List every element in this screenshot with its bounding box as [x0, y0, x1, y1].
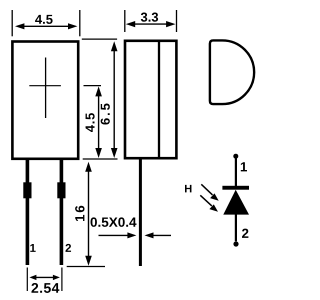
4.5 width value label — [35, 15, 53, 24]
lead width arrow pointing right — [99, 232, 137, 238]
4.5 height dimension arrow — [95, 86, 102, 158]
photodiode pin 2 terminal dot — [233, 241, 238, 246]
3.3 depth dimension arrow — [126, 21, 176, 27]
3.3 depth extension line right — [176, 10, 178, 32]
photodiode pin 1 label — [241, 162, 247, 171]
16 bottom extension line — [67, 266, 105, 268]
photodiode pin 2 label — [242, 229, 248, 238]
16 lead length dimension arrow — [85, 162, 92, 266]
lead 1 kink block — [23, 182, 31, 198]
2.54 extension line right — [61, 268, 63, 292]
photodiode anode triangle — [223, 190, 249, 215]
front view package outline — [12, 42, 78, 159]
photodiode pin 1 terminal dot — [233, 154, 238, 159]
4.5 width extension line right — [79, 10, 81, 36]
top view D-shape outline — [210, 40, 254, 104]
bottom extension line of package — [83, 158, 118, 160]
lead 2 kink block — [57, 182, 65, 198]
6.5 height dimension arrow — [111, 41, 118, 158]
lens center cross horizontal — [29, 85, 61, 87]
4.5 height value label — [86, 113, 95, 132]
pin label 1 — [30, 244, 35, 252]
lead 2 wire — [60, 159, 64, 266]
2.54 value label — [31, 283, 59, 293]
photodiode cathode bar — [222, 186, 249, 190]
photodiode pin 1 wire — [235, 156, 237, 186]
side view lead wire — [139, 159, 142, 267]
lens center cross vertical — [45, 58, 47, 119]
2.54 extension line left — [26, 268, 28, 292]
lead width arrow pointing left — [145, 232, 172, 238]
incident light arrow 2 — [200, 195, 218, 211]
incident light arrow 1 — [201, 184, 218, 200]
4.5 width dimension arrow — [15, 23, 77, 29]
4.5 height extension line at lens center — [84, 85, 102, 87]
3.3 depth value label — [141, 13, 158, 22]
0.5X0.4 lead section label — [91, 217, 137, 227]
pin label 2 — [66, 244, 72, 252]
16 value label — [75, 206, 84, 221]
4.5 width extension line left — [11, 10, 13, 36]
2.54 dimension arrow — [29, 275, 60, 280]
photodiode pin 2 wire — [235, 214, 237, 241]
lead 1 wire — [26, 159, 30, 266]
6.5 height value label — [101, 104, 110, 125]
3.3 depth extension line left — [124, 10, 126, 32]
incident light label H — [185, 185, 191, 193]
side view lens edge line — [158, 42, 160, 158]
side view package outline — [125, 41, 176, 158]
6.5 top extension line — [82, 38, 117, 40]
